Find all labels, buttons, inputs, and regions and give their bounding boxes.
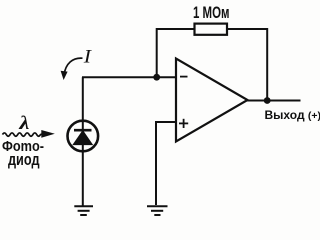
ground (photodiode) — [74, 206, 93, 215]
op-amp U1 — [176, 59, 248, 142]
op-amp plus pin mark — [179, 122, 188, 124]
svg-text:Выход (+): Выход (+) — [265, 108, 320, 122]
svg-text:λ: λ — [18, 113, 29, 134]
wire output — [246, 100, 301, 102]
op-amp minus pin mark — [180, 76, 188, 78]
light arrow wavy — [3, 133, 43, 136]
node junction at output — [264, 97, 271, 104]
photodiode VD1 — [68, 121, 99, 152]
svg-text:1 МОм: 1 МОм — [193, 4, 230, 22]
wire non-inverting input to ground — [156, 122, 176, 205]
svg-text:диод: диод — [8, 151, 40, 169]
wire inverting input horizontal — [82, 76, 176, 78]
wire feedback top-right segment — [227, 29, 267, 101]
ground (op-amp + input) — [147, 206, 168, 215]
wire photodiode vertical lead — [82, 77, 84, 205]
resistor R1 — [195, 24, 228, 35]
wire feedback top-left segment — [157, 29, 195, 77]
node junction at inverting input — [153, 74, 160, 81]
current arrow I — [64, 58, 83, 75]
